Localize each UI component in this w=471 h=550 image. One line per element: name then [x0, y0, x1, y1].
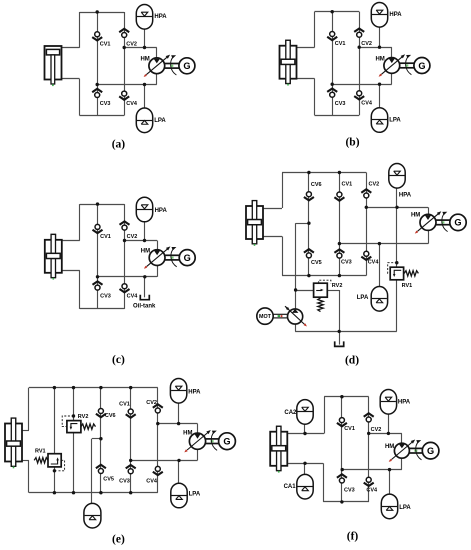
svg-text:(b): (b) [345, 137, 359, 149]
svg-text:(e): (e) [112, 534, 125, 546]
svg-text:CV1: CV1 [335, 41, 346, 47]
svg-text:HM: HM [183, 430, 192, 436]
svg-text:CV1: CV1 [342, 181, 353, 187]
svg-text:CV4: CV4 [126, 101, 138, 107]
svg-text:CV1: CV1 [119, 402, 130, 408]
svg-text:CV2: CV2 [146, 400, 157, 406]
svg-text:CV4: CV4 [127, 293, 139, 299]
svg-text:CV4: CV4 [368, 260, 380, 266]
svg-text:LPA: LPA [357, 295, 369, 301]
svg-text:CV4: CV4 [361, 101, 373, 107]
svg-text:HM: HM [385, 444, 394, 450]
svg-text:G: G [454, 218, 461, 228]
svg-text:CV6: CV6 [105, 413, 116, 419]
svg-text:CV3: CV3 [335, 101, 346, 107]
svg-text:CV4: CV4 [366, 487, 378, 493]
svg-text:CV2: CV2 [371, 427, 382, 433]
svg-text:CV6: CV6 [311, 182, 322, 188]
svg-text:HM: HM [140, 57, 149, 63]
svg-text:CV4: CV4 [146, 478, 158, 484]
svg-text:(f): (f) [347, 531, 359, 543]
svg-text:HM: HM [375, 56, 384, 62]
svg-text:LPA: LPA [389, 118, 401, 124]
svg-text:G: G [223, 437, 230, 447]
svg-text:G: G [427, 446, 434, 456]
svg-text:RV1: RV1 [35, 449, 46, 455]
svg-text:CV2: CV2 [369, 181, 380, 187]
svg-text:CV2: CV2 [361, 41, 372, 47]
svg-text:CV2: CV2 [127, 234, 138, 240]
svg-text:RV2: RV2 [332, 283, 343, 289]
svg-text:CV2: CV2 [126, 42, 137, 48]
svg-text:CA1: CA1 [284, 484, 297, 490]
svg-text:(a): (a) [112, 139, 126, 151]
svg-text:LPA: LPA [399, 505, 411, 511]
svg-text:HPA: HPA [389, 12, 402, 18]
svg-text:HPA: HPA [188, 390, 201, 396]
svg-text:CV3: CV3 [119, 478, 130, 484]
svg-text:Oil-tank: Oil-tank [133, 304, 156, 310]
svg-text:(c): (c) [112, 354, 125, 366]
svg-text:HPA: HPA [398, 400, 411, 406]
svg-text:CV1: CV1 [100, 234, 111, 240]
svg-text:G: G [418, 61, 425, 71]
svg-text:CV3: CV3 [341, 260, 352, 266]
svg-text:RV2: RV2 [78, 414, 89, 420]
svg-text:HPA: HPA [154, 14, 167, 20]
svg-text:RV1: RV1 [402, 283, 413, 289]
svg-text:CV1: CV1 [344, 426, 355, 432]
svg-text:G: G [183, 61, 190, 71]
svg-text:LPA: LPA [189, 492, 201, 498]
svg-text:CV5: CV5 [311, 260, 322, 266]
svg-text:CV5: CV5 [103, 477, 114, 483]
svg-text:CV3: CV3 [100, 101, 111, 107]
svg-text:MOT: MOT [259, 314, 272, 320]
svg-text:CA2: CA2 [284, 410, 297, 416]
svg-text:LPA: LPA [154, 118, 166, 124]
svg-text:HM: HM [411, 212, 420, 218]
svg-text:HM: HM [141, 248, 150, 254]
svg-text:HPA: HPA [399, 192, 412, 198]
svg-text:CV3: CV3 [344, 487, 355, 493]
svg-text:(d): (d) [345, 354, 359, 366]
svg-text:CV3: CV3 [100, 294, 111, 300]
svg-text:G: G [184, 253, 191, 263]
svg-text:CV1: CV1 [100, 42, 111, 48]
svg-text:HPA: HPA [155, 208, 168, 214]
